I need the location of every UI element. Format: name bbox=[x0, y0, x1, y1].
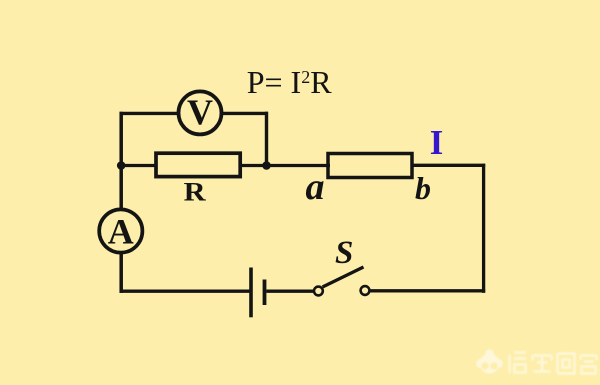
wire: left vertical upper (junction up to voltmeter corner, down to ammeter) bbox=[119, 112, 123, 208]
watermark text bbox=[510, 353, 597, 374]
svg-text:S: S bbox=[335, 235, 353, 271]
svg-text:a: a bbox=[306, 166, 325, 208]
wire: right vertical bbox=[482, 164, 485, 293]
wire: between resistor R and resistor ab bbox=[240, 164, 330, 167]
wire: right of resistor ab bbox=[411, 164, 485, 167]
wire: main horizontal left of resistor R bbox=[120, 164, 158, 167]
svg-text:A: A bbox=[108, 212, 134, 252]
resistor ab bbox=[328, 154, 412, 178]
svg-text:R: R bbox=[184, 178, 206, 207]
wire: voltmeter branch top-left horizontal bbox=[120, 112, 179, 115]
switch S bbox=[314, 235, 369, 295]
wire: voltmeter branch right vertical bbox=[265, 112, 268, 166]
wire: bottom horizontal left of battery bbox=[120, 290, 250, 293]
resistor R bbox=[156, 153, 240, 207]
wire: battery to switch bbox=[266, 290, 314, 293]
wire: switch to right vertical bbox=[370, 289, 486, 292]
ammeter A bbox=[99, 209, 142, 252]
junction dot right bbox=[262, 161, 271, 170]
svg-text:P= I2R: P= I2R bbox=[247, 64, 333, 100]
svg-text:I: I bbox=[430, 123, 444, 162]
wire: left vertical below ammeter bbox=[119, 254, 123, 293]
voltmeter V bbox=[179, 91, 222, 134]
watermark logo bbox=[476, 349, 503, 373]
svg-text:b: b bbox=[415, 170, 431, 206]
svg-text:V: V bbox=[187, 92, 213, 132]
battery bbox=[251, 268, 265, 318]
junction dot left bbox=[117, 161, 126, 170]
wire: voltmeter branch top-right horizontal bbox=[223, 112, 269, 115]
